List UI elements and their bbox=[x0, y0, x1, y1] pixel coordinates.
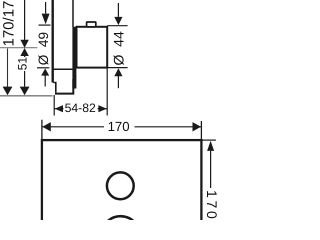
lower knob step bbox=[53, 83, 56, 93]
left extension above square bbox=[41, 120, 43, 140]
dim Ø49 bbox=[37, 2, 51, 87]
extension line above plate bbox=[72, 0, 74, 27]
valve body bbox=[77, 27, 108, 68]
dim 170 horizontal bbox=[42, 126, 202, 128]
arrow right 54-82 bbox=[98, 105, 106, 112]
right extension above square bbox=[200, 121, 202, 140]
tab on body bbox=[87, 22, 96, 27]
chain arrow up (lower) bbox=[20, 48, 28, 56]
svg-text:54-82: 54-82 bbox=[65, 101, 96, 115]
center line of valve body bbox=[0, 47, 37, 49]
dim Ø44 bbox=[107, 3, 127, 88]
svg-text:170: 170 bbox=[108, 119, 130, 134]
arrow down 51 at baseline bbox=[20, 87, 30, 96]
arrow left 54-82 bbox=[55, 105, 63, 112]
dim 54-82 bbox=[54, 68, 107, 116]
dim line 170/170 bbox=[7, 49, 9, 88]
svg-text:170/170: 170/170 bbox=[0, 0, 17, 47]
lower knob top edge bbox=[53, 68, 72, 70]
arrow down Ø44 bbox=[114, 17, 122, 25]
big thermostat knob circle bbox=[101, 216, 140, 240]
wall plate (solid side profile) bbox=[72, 27, 76, 89]
svg-text:Ø 44: Ø 44 bbox=[110, 31, 126, 65]
front escutcheon square bbox=[42, 140, 202, 240]
svg-text:51: 51 bbox=[16, 57, 30, 71]
svg-text:170: 170 bbox=[204, 190, 220, 220]
arrow down Ø49 bbox=[42, 14, 50, 25]
extension right of square top bbox=[201, 139, 216, 141]
arrow down 170/170 bbox=[3, 87, 13, 96]
baseline bbox=[0, 95, 53, 97]
lower knob bottom and right bbox=[55, 79, 73, 94]
arrow left 170 bbox=[42, 122, 50, 131]
small select knob circle bbox=[107, 172, 134, 199]
dim line 51 chain bbox=[24, 0, 26, 87]
svg-text:Ø 49: Ø 49 bbox=[36, 32, 51, 65]
arrow up Ø49 bbox=[41, 69, 49, 76]
arrow up 170 right bbox=[207, 141, 214, 151]
chain arrow down (upper, tip at body center) bbox=[20, 40, 28, 48]
dim 170 vertical right bbox=[210, 151, 212, 188]
handle front edge bbox=[52, 0, 54, 83]
arrow up Ø44 bbox=[114, 68, 122, 76]
arrow right 170 bbox=[193, 122, 201, 131]
